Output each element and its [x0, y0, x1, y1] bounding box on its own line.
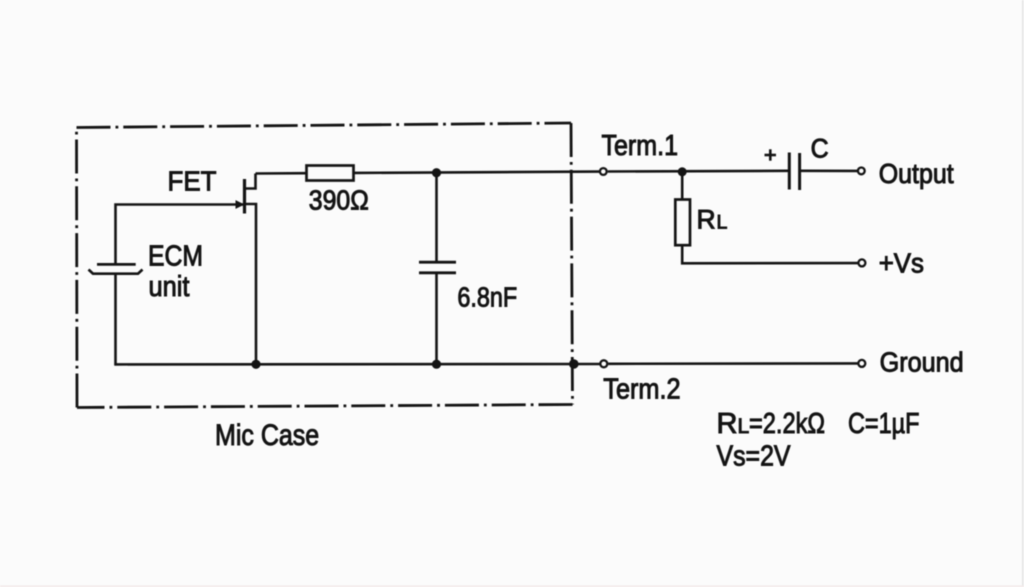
- svg-text:6.8nF: 6.8nF: [457, 282, 517, 313]
- svg-text:Mic Case: Mic Case: [215, 419, 319, 452]
- svg-text:Ground: Ground: [880, 346, 964, 377]
- svg-text:FET: FET: [168, 165, 217, 196]
- svg-text:L: L: [738, 415, 750, 438]
- svg-text:C=1µF: C=1µF: [848, 408, 920, 440]
- svg-text:=2.2kΩ: =2.2kΩ: [749, 408, 825, 440]
- svg-text:Vs=2V: Vs=2V: [717, 441, 792, 473]
- svg-text:+Vs: +Vs: [879, 247, 924, 278]
- svg-text:390Ω: 390Ω: [309, 185, 369, 216]
- svg-text:L: L: [717, 212, 728, 234]
- svg-text:ECM: ECM: [148, 240, 203, 272]
- svg-text:Output: Output: [879, 158, 954, 189]
- svg-text:unit: unit: [149, 271, 190, 303]
- svg-text:Term.2: Term.2: [603, 374, 680, 406]
- svg-text:R: R: [717, 408, 738, 440]
- svg-text:Term.1: Term.1: [602, 130, 679, 162]
- svg-text:R: R: [697, 205, 716, 235]
- svg-text:C: C: [811, 134, 829, 164]
